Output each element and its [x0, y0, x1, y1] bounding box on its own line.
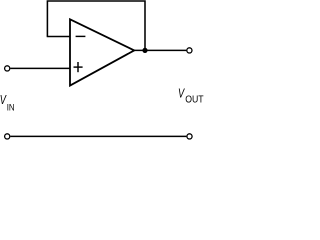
input terminal — [5, 66, 10, 71]
wire output — [134, 49, 186, 51]
op-amp U1 — [70, 19, 134, 85]
wire non-inverting input — [10, 67, 70, 69]
node VOUT label — [178, 85, 204, 105]
svg-text:OUT: OUT — [185, 94, 203, 105]
svg-text:IN: IN — [7, 102, 15, 112]
node VIN label — [0, 92, 15, 113]
wire inverting input — [47, 36, 70, 38]
wire feedback loop from output node to inverting input — [47, 1, 145, 50]
node output junction — [142, 48, 147, 53]
svg-text:V: V — [0, 92, 7, 107]
bottom-right terminal — [187, 134, 192, 139]
wire bottom rail — [10, 135, 186, 137]
output terminal — [187, 48, 192, 53]
svg-text:V: V — [178, 85, 185, 100]
bottom-left terminal — [5, 134, 10, 139]
